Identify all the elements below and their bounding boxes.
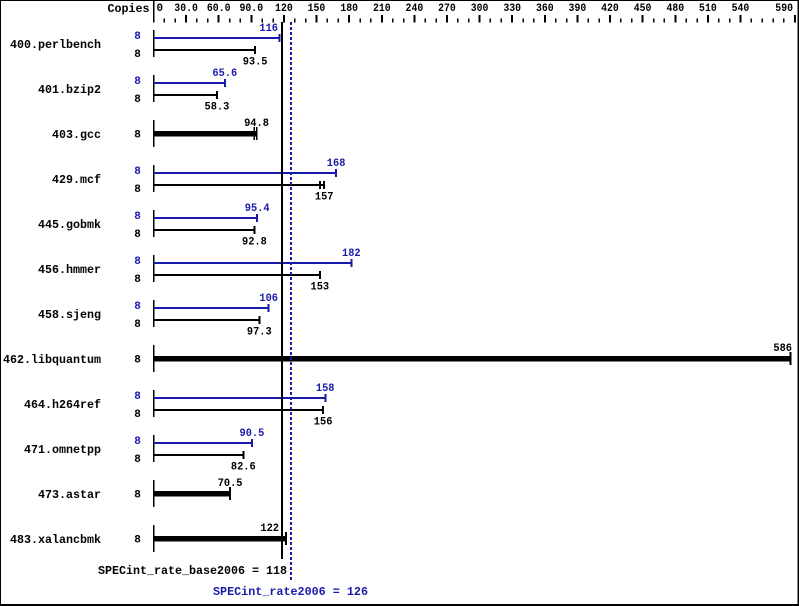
svg-text:157: 157 bbox=[315, 191, 334, 203]
x-axis labels bbox=[156, 3, 793, 15]
svg-text:168: 168 bbox=[327, 158, 346, 170]
svg-text:95.4: 95.4 bbox=[245, 203, 270, 215]
svg-text:8: 8 bbox=[134, 31, 141, 43]
group 456.hmmer bbox=[38, 248, 361, 293]
y-axis top segment bbox=[153, 1, 155, 23]
svg-text:156: 156 bbox=[314, 416, 333, 428]
svg-text:400.perlbench: 400.perlbench bbox=[10, 38, 101, 52]
svg-text:590: 590 bbox=[775, 3, 793, 15]
svg-text:420: 420 bbox=[601, 3, 619, 15]
svg-text:8: 8 bbox=[134, 535, 141, 547]
svg-text:97.3: 97.3 bbox=[247, 326, 272, 338]
svg-text:8: 8 bbox=[134, 355, 141, 367]
svg-text:8: 8 bbox=[134, 229, 141, 241]
svg-text:300: 300 bbox=[471, 3, 489, 15]
svg-text:360: 360 bbox=[536, 3, 554, 15]
svg-text:90.5: 90.5 bbox=[240, 428, 265, 440]
group 401.bzip2 bbox=[38, 68, 237, 113]
svg-text:8: 8 bbox=[134, 319, 141, 331]
svg-text:540: 540 bbox=[732, 3, 750, 15]
svg-text:65.6: 65.6 bbox=[212, 68, 237, 80]
svg-text:471.omnetpp: 471.omnetpp bbox=[24, 443, 101, 457]
svg-text:240: 240 bbox=[406, 3, 424, 15]
group 462.libquantum bbox=[3, 343, 792, 372]
svg-text:586: 586 bbox=[773, 343, 792, 355]
svg-text:8: 8 bbox=[134, 256, 141, 268]
svg-text:Copies: Copies bbox=[108, 2, 150, 16]
svg-text:SPECint_rate_base2006 = 118: SPECint_rate_base2006 = 118 bbox=[98, 564, 287, 578]
svg-text:90.0: 90.0 bbox=[240, 3, 264, 15]
svg-text:93.5: 93.5 bbox=[243, 56, 268, 68]
svg-text:464.h264ref: 464.h264ref bbox=[24, 398, 101, 412]
svg-text:116: 116 bbox=[259, 23, 278, 35]
svg-text:330: 330 bbox=[503, 3, 521, 15]
svg-text:8: 8 bbox=[134, 49, 141, 61]
svg-text:8: 8 bbox=[134, 94, 141, 106]
svg-text:120: 120 bbox=[275, 3, 293, 15]
svg-text:153: 153 bbox=[311, 281, 330, 293]
svg-text:0: 0 bbox=[156, 3, 163, 15]
svg-text:270: 270 bbox=[438, 3, 456, 15]
peak mean reference line (126, dotted) bbox=[290, 22, 292, 582]
svg-text:401.bzip2: 401.bzip2 bbox=[38, 83, 101, 97]
svg-text:480: 480 bbox=[666, 3, 684, 15]
base mean reference line (118) bbox=[281, 22, 283, 559]
group 429.mcf bbox=[52, 158, 346, 203]
svg-text:82.6: 82.6 bbox=[231, 461, 256, 473]
svg-text:8: 8 bbox=[134, 211, 141, 223]
svg-text:403.gcc: 403.gcc bbox=[52, 128, 101, 142]
svg-text:456.hmmer: 456.hmmer bbox=[38, 263, 101, 277]
svg-text:8: 8 bbox=[134, 130, 141, 142]
svg-text:429.mcf: 429.mcf bbox=[52, 173, 101, 187]
group 403.gcc bbox=[52, 118, 269, 147]
svg-text:8: 8 bbox=[134, 166, 141, 178]
svg-text:8: 8 bbox=[134, 409, 141, 421]
svg-text:150: 150 bbox=[308, 3, 326, 15]
svg-text:210: 210 bbox=[373, 3, 391, 15]
svg-text:8: 8 bbox=[134, 490, 141, 502]
svg-text:158: 158 bbox=[316, 383, 335, 395]
svg-text:60.0: 60.0 bbox=[207, 3, 231, 15]
svg-text:8: 8 bbox=[134, 76, 141, 88]
group 464.h264ref bbox=[24, 383, 335, 428]
svg-text:70.5: 70.5 bbox=[218, 478, 243, 490]
svg-text:483.xalancbmk: 483.xalancbmk bbox=[10, 533, 101, 547]
svg-text:8: 8 bbox=[134, 391, 141, 403]
svg-text:30.0: 30.0 bbox=[174, 3, 198, 15]
svg-text:122: 122 bbox=[260, 523, 279, 535]
group 483.xalancbmk bbox=[10, 523, 286, 552]
x-axis ticks bbox=[164, 15, 794, 23]
svg-text:58.3: 58.3 bbox=[205, 101, 230, 113]
svg-text:8: 8 bbox=[134, 436, 141, 448]
svg-text:182: 182 bbox=[342, 248, 361, 260]
group 445.gobmk bbox=[38, 203, 270, 248]
svg-text:473.astar: 473.astar bbox=[38, 488, 101, 502]
gcc extra run marker bbox=[253, 127, 255, 140]
mcf base extra run marker bbox=[319, 181, 321, 189]
svg-text:8: 8 bbox=[134, 454, 141, 466]
svg-text:SPECint_rate2006 = 126: SPECint_rate2006 = 126 bbox=[213, 585, 368, 599]
group 471.omnetpp bbox=[24, 428, 265, 473]
group 400.perlbench bbox=[10, 23, 280, 68]
svg-text:390: 390 bbox=[569, 3, 587, 15]
group 458.sjeng bbox=[38, 293, 278, 338]
svg-text:458.sjeng: 458.sjeng bbox=[38, 308, 101, 322]
group 473.astar bbox=[38, 478, 243, 507]
svg-text:8: 8 bbox=[134, 184, 141, 196]
svg-text:8: 8 bbox=[134, 301, 141, 313]
svg-text:8: 8 bbox=[134, 274, 141, 286]
svg-text:510: 510 bbox=[699, 3, 717, 15]
svg-text:450: 450 bbox=[634, 3, 652, 15]
svg-text:462.libquantum: 462.libquantum bbox=[3, 353, 101, 367]
svg-text:445.gobmk: 445.gobmk bbox=[38, 218, 101, 232]
svg-text:106: 106 bbox=[259, 293, 278, 305]
svg-text:92.8: 92.8 bbox=[242, 236, 267, 248]
svg-text:180: 180 bbox=[340, 3, 358, 15]
svg-text:94.8: 94.8 bbox=[244, 118, 269, 130]
